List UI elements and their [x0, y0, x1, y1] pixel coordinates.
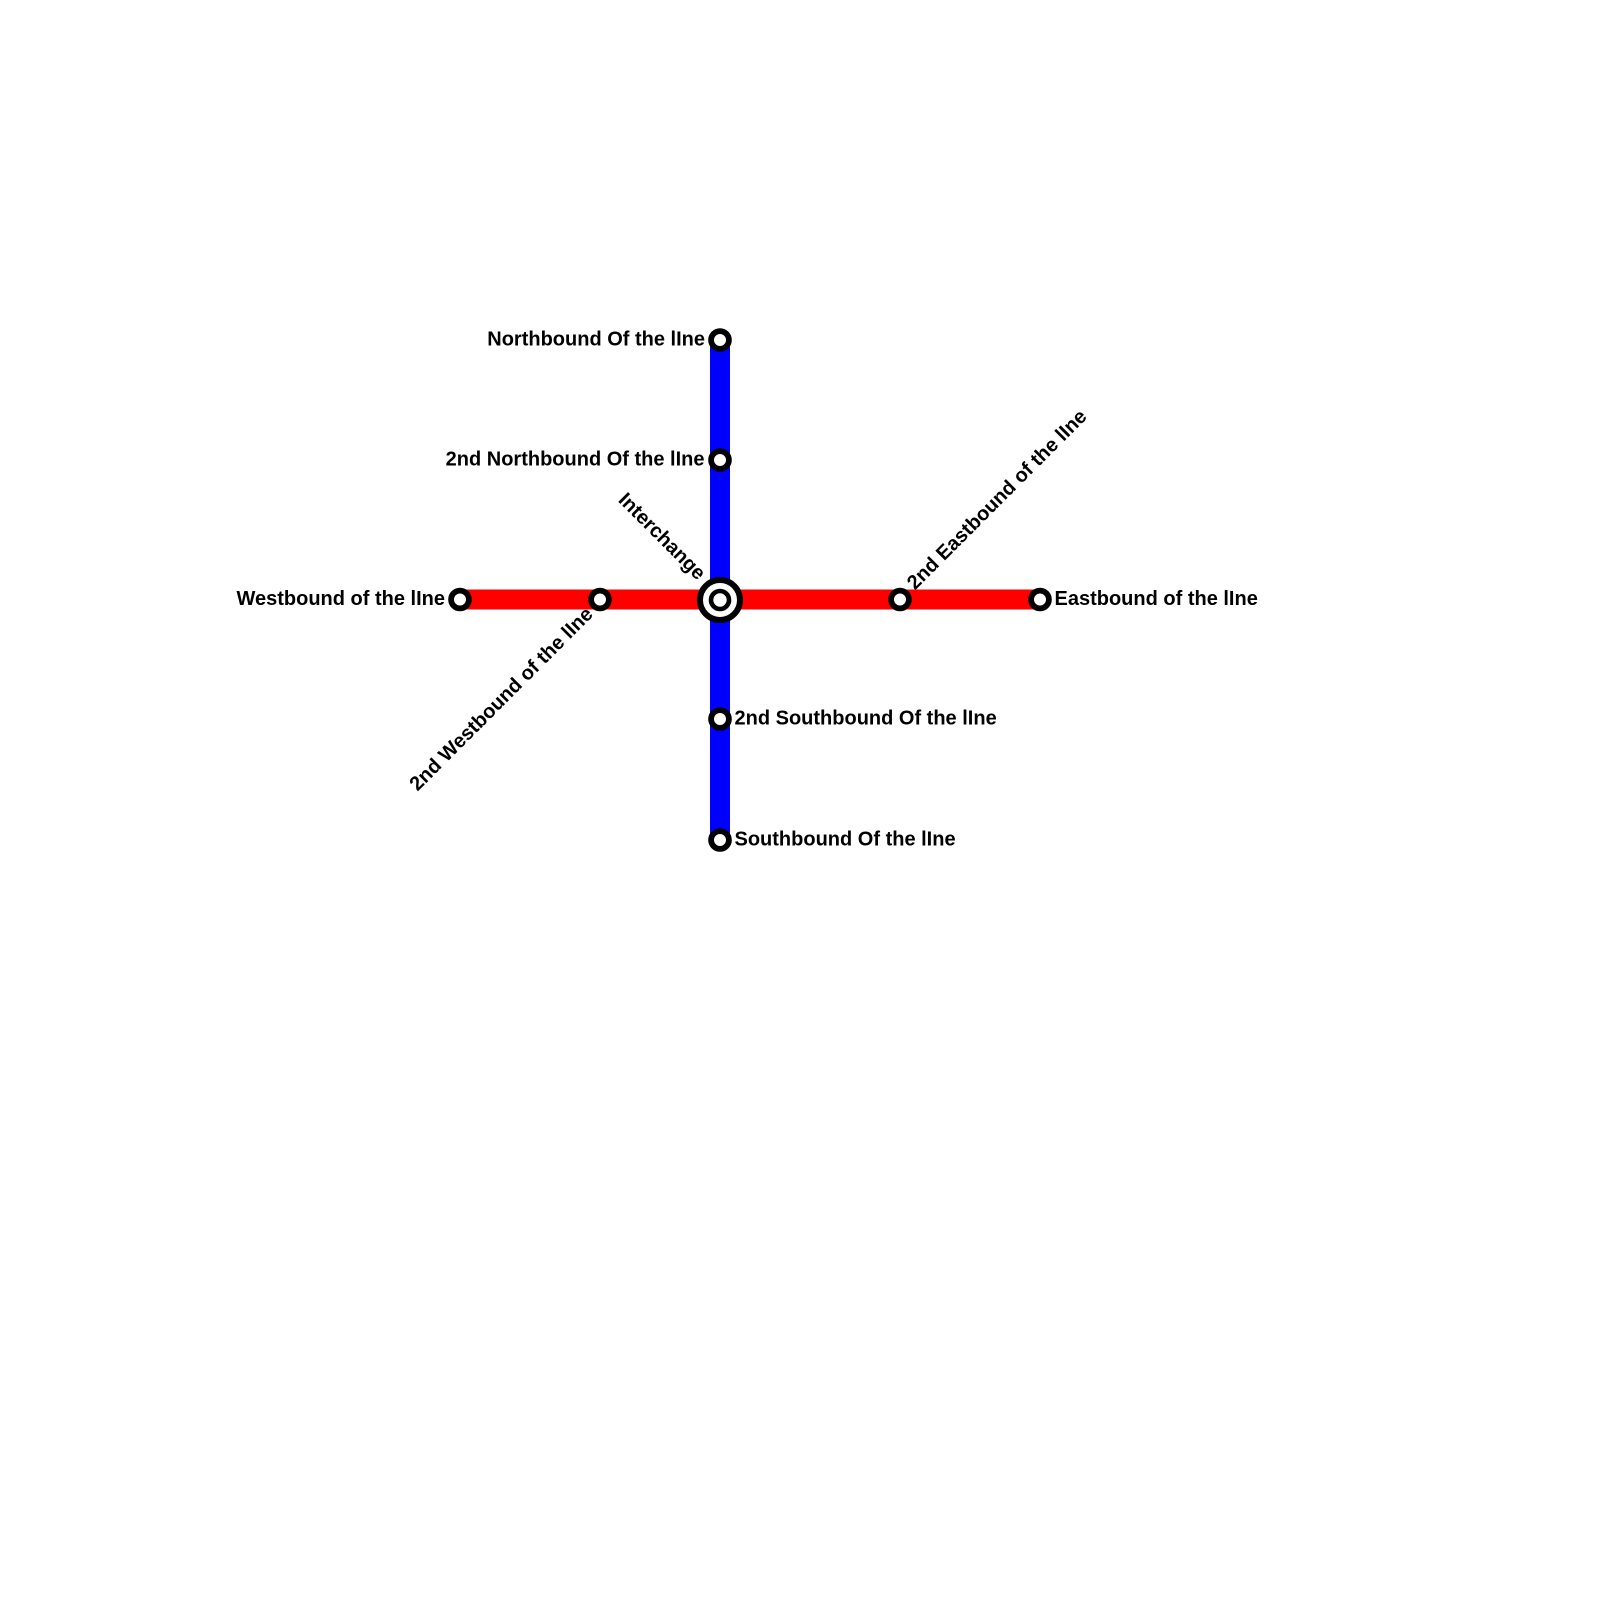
svg-text:Eastbound of the lIne: Eastbound of the lIne: [1055, 588, 1258, 610]
svg-text:Southbound Of the lIne: Southbound Of the lIne: [735, 828, 956, 850]
svg-text:2nd Southbound Of the lIne: 2nd Southbound Of the lIne: [735, 707, 997, 729]
svg-text:Westbound of the lIne: Westbound of the lIne: [236, 588, 445, 610]
svg-text:2nd Northbound Of the lIne: 2nd Northbound Of the lIne: [446, 448, 705, 470]
svg-text:Northbound Of the lIne: Northbound Of the lIne: [487, 328, 705, 350]
